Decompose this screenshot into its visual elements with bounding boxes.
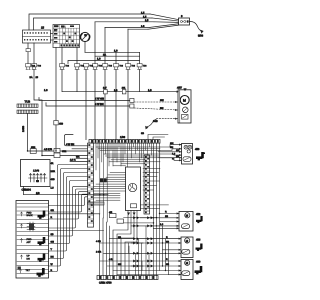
svg-text:M: M xyxy=(183,99,186,103)
svg-text:GN: GN xyxy=(170,142,174,145)
sunroof motor module 4/57 xyxy=(177,87,192,123)
svg-text:AFT: AFT xyxy=(27,241,32,244)
wire ext 243 xyxy=(131,242,143,244)
svg-text:UP: UP xyxy=(27,255,31,258)
wire bus 3 xyxy=(95,21,154,23)
wire line151 xyxy=(28,150,88,152)
svg-text:SB: SB xyxy=(165,215,169,218)
svg-text:4 SB: 4 SB xyxy=(96,240,101,243)
svg-text:GR: GR xyxy=(76,156,80,159)
switch icon 1 xyxy=(38,211,46,219)
connector C6/32 b xyxy=(54,148,60,152)
wire pair BN xyxy=(46,103,130,106)
connector S/08 (fan box) xyxy=(179,15,190,25)
wire bus 91.7 to module1 xyxy=(62,69,177,91)
wire pair GN xyxy=(39,98,130,101)
wires into 453 xyxy=(139,236,181,253)
wire pigtail S/08 xyxy=(190,22,202,31)
svg-text:4SB: 4SB xyxy=(51,178,56,181)
switch contact block xyxy=(182,115,189,120)
wire boxB cross a xyxy=(49,213,100,215)
wire line155 xyxy=(42,155,88,157)
position sensor xyxy=(183,107,189,113)
wire table drop 3 xyxy=(55,48,57,121)
wire dashed S48 to module1 xyxy=(157,118,178,120)
svg-text:453: 453 xyxy=(196,239,201,242)
wire bus 4 xyxy=(105,26,150,28)
connector row T/08 x10 xyxy=(26,64,148,70)
wire trunk x128 xyxy=(127,29,129,63)
svg-text:4 R: 4 R xyxy=(109,258,113,261)
wire fan 2 xyxy=(152,18,179,21)
seat motor module 452 xyxy=(179,212,193,232)
svg-text:BN: BN xyxy=(170,146,174,149)
wire bus 5 xyxy=(128,28,148,30)
svg-text:12V8: 12V8 xyxy=(33,170,40,173)
svg-text:FWD: FWD xyxy=(27,238,32,241)
wire drop x139.5 xyxy=(139,69,141,91)
wire from A1 pin down left xyxy=(27,43,29,49)
svg-text:C/EM34: C/EM34 xyxy=(22,188,32,191)
wire trunk x105 xyxy=(104,27,106,63)
junction dots xyxy=(27,150,166,271)
wire ext 266 xyxy=(131,265,143,267)
svg-text:C/EM 4758: C/EM 4758 xyxy=(99,282,112,285)
connector on x56 xyxy=(54,121,58,125)
seat motor module 460 xyxy=(181,260,193,280)
wire horiz 52 xyxy=(85,51,140,53)
switch icon 3 xyxy=(38,254,46,262)
wire drop x128 xyxy=(127,69,129,139)
svg-text:450: 450 xyxy=(195,148,200,151)
wire entry arrowheads xyxy=(175,101,181,276)
svg-text:1/8: 1/8 xyxy=(36,192,40,195)
svg-text:SB: SB xyxy=(166,263,170,266)
svg-text:2 GR: 2 GR xyxy=(96,251,102,254)
wire drop x86 xyxy=(85,69,87,139)
svg-text:DN: DN xyxy=(27,257,31,260)
svg-text:GN: GN xyxy=(160,99,164,102)
right strip pins xyxy=(144,155,150,214)
svg-text:GR: GR xyxy=(176,149,180,152)
clock symbol K xyxy=(128,183,136,191)
wire trunk x95 xyxy=(94,22,96,64)
wires into 450 xyxy=(158,142,182,161)
switch icon 4 xyxy=(37,268,45,277)
trunk verticals right xyxy=(154,143,169,274)
wire boxB cross b xyxy=(49,230,104,232)
wire 1/8 xyxy=(24,187,109,195)
connector on GN xyxy=(130,98,134,102)
connector C1 xyxy=(26,49,30,52)
wire dashed BN to module1 xyxy=(134,108,178,110)
wire dashed GN to module1 xyxy=(134,101,178,103)
connector C6/32 a xyxy=(30,149,36,154)
svg-text:489: 489 xyxy=(59,123,64,126)
svg-text:GN: GN xyxy=(118,263,122,266)
seat icon 452 xyxy=(196,216,203,223)
mesh horizontal rows xyxy=(96,147,169,223)
wire TUB down xyxy=(27,114,29,152)
svg-text:SB: SB xyxy=(166,240,170,243)
svg-text:TILT: TILT xyxy=(26,269,31,272)
connector strip left column xyxy=(88,143,94,227)
svg-text:1.0: 1.0 xyxy=(114,49,118,52)
wire fan 5 xyxy=(148,25,179,29)
connector pair rows (arrow terminals) xyxy=(133,216,153,267)
svg-text:5/08: 5/08 xyxy=(198,35,204,38)
wires from ECU bottom xyxy=(113,211,137,276)
small boxes under ECU xyxy=(110,214,117,218)
wire trunk x139.5 xyxy=(139,52,141,63)
wire ext 225.9 xyxy=(131,225,157,227)
wire ignition drop xyxy=(84,42,86,53)
svg-text:2.5 R: 2.5 R xyxy=(70,159,76,162)
wire bus 2 xyxy=(34,18,153,30)
relay K1 inside xyxy=(29,170,48,183)
wire fan 1 xyxy=(150,14,179,20)
wire fan 4 xyxy=(150,24,179,28)
wire verticals to bottom strip right xyxy=(136,214,160,276)
svg-text:15: 15 xyxy=(41,26,45,30)
courtesy lamp module 450 xyxy=(182,144,193,165)
white box ECU xyxy=(126,167,141,211)
wire A1 to fuse box b xyxy=(51,39,54,41)
svg-text:1/08: 1/08 xyxy=(120,136,126,139)
svg-text:TUB: TUB xyxy=(25,100,31,104)
wire from A1 pin down right xyxy=(33,43,35,64)
wire trunk x116 xyxy=(115,52,117,63)
wire drop x116 xyxy=(115,69,117,139)
terminal strip bar1 xyxy=(17,104,38,107)
verticals to bottom bar xyxy=(100,214,130,276)
terminal strip bar2 xyxy=(17,110,38,113)
svg-text:4 W GN: 4 W GN xyxy=(95,97,104,100)
wire x56 lower xyxy=(55,125,57,151)
svg-text:1.0: 1.0 xyxy=(44,89,48,92)
wires above strip right xyxy=(148,135,168,140)
svg-text:S48: S48 xyxy=(153,120,158,123)
mini strip xyxy=(88,202,104,205)
wire horiz 60 xyxy=(68,61,140,64)
connector on BN xyxy=(130,104,134,108)
wire drop x105 xyxy=(104,69,106,139)
svg-text:BN: BN xyxy=(160,107,164,110)
wire horiz 56 xyxy=(95,55,140,57)
seat icon 460 xyxy=(195,266,203,274)
hatch wires pack xyxy=(94,173,126,201)
wire x34 jog xyxy=(34,69,42,155)
connector dark pair xyxy=(100,178,107,182)
seat icon 450 xyxy=(196,152,205,160)
fuse box table 11/1 xyxy=(53,25,80,48)
connector strip top (header) xyxy=(89,140,160,144)
pin cluster xyxy=(27,222,35,231)
svg-text:4R: 4R xyxy=(51,162,54,165)
svg-text:FWD: FWD xyxy=(27,211,32,214)
svg-text:4.5 170: 4.5 170 xyxy=(44,148,53,151)
wire A1 to fuse box a xyxy=(51,33,54,35)
svg-text:2GR: 2GR xyxy=(51,170,56,173)
svg-text:10GB: 10GB xyxy=(22,125,25,132)
wire fan 3 xyxy=(154,21,179,24)
elbow bundle wires to seat switch pack xyxy=(49,165,88,272)
wire drop x95 xyxy=(94,69,96,139)
ignition switch SW1 xyxy=(80,32,89,41)
connector D2 on bus xyxy=(122,90,126,94)
svg-text:460: 460 xyxy=(196,260,201,263)
svg-text:4 W BN: 4 W BN xyxy=(95,103,104,106)
seat icon 453 xyxy=(196,244,203,252)
motor M1 xyxy=(180,96,189,105)
module 12V8 box xyxy=(21,160,51,187)
svg-text:4 W GN: 4 W GN xyxy=(66,143,75,146)
wire row extensions bottom grid xyxy=(100,239,181,275)
svg-text:1.0: 1.0 xyxy=(97,58,101,61)
switch icon 2 xyxy=(38,237,46,245)
seat motor module 453 xyxy=(181,237,193,258)
wires into left strip with labels xyxy=(65,135,88,162)
svg-text:BACK: BACK xyxy=(27,214,33,217)
wire table drop 2 xyxy=(76,48,78,64)
wires into 460 xyxy=(139,258,181,274)
terminal end S/08 xyxy=(200,30,203,34)
wires into 452 xyxy=(140,211,179,229)
svg-text:4/57: 4/57 xyxy=(177,87,182,90)
wire drop x77 xyxy=(76,69,78,91)
seat switch pack box xyxy=(16,201,49,279)
svg-text:1.0: 1.0 xyxy=(148,89,152,92)
svg-text:452: 452 xyxy=(196,213,201,216)
bottom connector strip xyxy=(97,276,158,280)
wire color labels left xyxy=(51,162,56,272)
mesh verticals xyxy=(96,143,151,222)
pigtail S48 xyxy=(146,119,156,127)
connector D1 on bus xyxy=(104,90,108,94)
wire bus B+ top xyxy=(29,14,150,30)
control module A1 (relay box) xyxy=(23,26,51,43)
wire table drop 1 xyxy=(61,48,63,64)
